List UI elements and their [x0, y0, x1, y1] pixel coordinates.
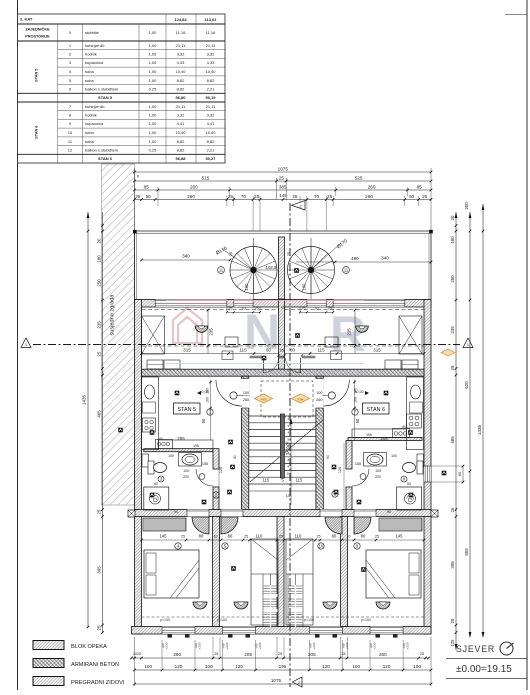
neighbour building hatch susjedna zgrada — [102, 164, 135, 505]
svg-text:STAN 5: STAN 5 — [178, 407, 196, 413]
svg-text:25: 25 — [228, 251, 233, 256]
kitchen counter left — [142, 377, 159, 450]
dimension row small top — [135, 199, 432, 201]
watermark diamond far right — [441, 349, 455, 356]
right dimension column 3 1435 — [482, 204, 484, 637]
svg-text:1075: 1075 — [278, 167, 289, 172]
svg-text:260: 260 — [365, 194, 373, 199]
sideboard left living — [147, 360, 163, 369]
extension line top right — [430, 168, 432, 231]
svg-text:180: 180 — [450, 236, 455, 244]
svg-text:25: 25 — [181, 535, 185, 539]
svg-text:STAN 6: STAN 6 — [367, 407, 385, 413]
svg-text:115: 115 — [263, 478, 270, 483]
stair shaft wall left — [241, 376, 248, 516]
interior door dim right — [300, 311, 333, 313]
top exterior wall — [135, 300, 432, 308]
svg-text:120: 120 — [219, 467, 223, 473]
bathroom window right wall — [424, 466, 431, 482]
room schedule table — [18, 14, 226, 163]
section marker B bottom — [293, 677, 303, 687]
svg-text:25: 25 — [279, 176, 285, 181]
label STAN 6 — [363, 403, 390, 414]
bottom wall edge extension lines — [212, 637, 214, 659]
washbasin left — [179, 453, 202, 467]
watermark logo house — [173, 308, 202, 343]
svg-text:1025: 1025 — [133, 652, 141, 656]
svg-text:STAN 5: STAN 5 — [98, 95, 113, 100]
svg-text:110: 110 — [295, 534, 302, 539]
entry door right apartment — [323, 380, 349, 406]
svg-text:100: 100 — [352, 664, 360, 669]
svg-text:25: 25 — [328, 307, 332, 311]
svg-text:0,25: 0,25 — [149, 147, 158, 152]
balcony door top right — [307, 300, 326, 308]
vestibule door left leaf — [263, 358, 265, 373]
door opening bedroom3 — [320, 510, 342, 517]
svg-text:1,00: 1,00 — [149, 60, 158, 65]
svg-text:+0,00: +0,00 — [354, 390, 364, 394]
stair treads — [249, 415, 316, 417]
svg-text:2,21: 2,21 — [207, 86, 216, 91]
svg-text:8,82: 8,82 — [207, 78, 216, 83]
legend blok opeka — [33, 641, 64, 650]
svg-text:90: 90 — [233, 455, 237, 459]
svg-text:100: 100 — [205, 664, 213, 669]
window bedroom2 bottom — [223, 627, 256, 635]
spiral staircase right — [288, 247, 335, 294]
svg-text:70: 70 — [241, 307, 245, 311]
window top-left living room — [155, 300, 227, 308]
svg-text:235: 235 — [96, 321, 101, 329]
separator line — [446, 658, 527, 660]
section marker A right — [463, 338, 473, 348]
sideboard right living — [402, 360, 418, 369]
svg-text:+230: +230 — [312, 642, 316, 649]
svg-text:100: 100 — [316, 391, 322, 395]
svg-text:485: 485 — [450, 436, 455, 444]
svg-text:±0.00=19.15: ±0.00=19.15 — [456, 664, 512, 675]
svg-text:340: 340 — [381, 256, 389, 261]
electrical symbols — [118, 428, 123, 433]
svg-text:1075: 1075 — [271, 678, 282, 683]
svg-text:145: 145 — [396, 534, 404, 539]
svg-text:620: 620 — [464, 381, 469, 389]
svg-text:60: 60 — [159, 437, 163, 441]
door fan bedroom2 — [221, 517, 238, 534]
dimension row 85-260-385-260-85 — [135, 189, 432, 191]
svg-text:205: 205 — [244, 652, 252, 657]
svg-text:100: 100 — [206, 397, 210, 403]
svg-text:2. KAT: 2. KAT — [20, 17, 33, 22]
section marker A left — [21, 338, 31, 348]
svg-text:soba: soba — [85, 78, 94, 83]
svg-text:85: 85 — [417, 185, 423, 190]
bath window dim 60 — [462, 466, 464, 482]
svg-text:8,82: 8,82 — [177, 147, 186, 152]
svg-text:100: 100 — [302, 283, 307, 291]
balcony railing top — [135, 230, 432, 232]
bath dim ticks — [218, 455, 220, 509]
svg-text:kuhinja+db: kuhinja+db — [85, 43, 105, 48]
svg-text:9x16,67: 9x16,67 — [286, 441, 290, 455]
sheet frame right border — [526, 0, 528, 690]
svg-text:3,32: 3,32 — [207, 52, 216, 57]
svg-text:115: 115 — [317, 348, 325, 353]
hodnik dim right — [354, 380, 356, 440]
svg-text:11,16: 11,16 — [176, 30, 186, 35]
svg-text:soba: soba — [85, 130, 94, 135]
svg-text:80: 80 — [332, 534, 337, 539]
svg-text:STAN 6: STAN 6 — [35, 126, 39, 139]
wall junction symbol right — [431, 510, 438, 517]
bedroom divider wall 1 — [213, 517, 220, 627]
bath door left arc — [196, 469, 213, 486]
svg-text:BLOK OPEKA: BLOK OPEKA — [71, 644, 107, 650]
svg-text:260: 260 — [379, 652, 387, 657]
svg-text:11,16: 11,16 — [206, 30, 216, 35]
svg-text:80: 80 — [199, 534, 204, 539]
svg-text:195: 195 — [193, 444, 199, 448]
kitchen counter leg right — [352, 429, 407, 438]
left dimension column inner — [102, 212, 104, 633]
svg-text:25: 25 — [214, 652, 218, 656]
svg-text:113,61: 113,61 — [204, 17, 217, 22]
svg-text:56,88: 56,88 — [175, 156, 186, 161]
svg-text:120: 120 — [383, 664, 391, 669]
svg-text:25: 25 — [422, 194, 428, 199]
svg-text:155: 155 — [202, 462, 208, 466]
dimension row 1075 top — [135, 171, 432, 173]
svg-text:90: 90 — [326, 455, 330, 459]
svg-text:10,40: 10,40 — [175, 130, 186, 135]
svg-text:p=100: p=100 — [160, 618, 170, 622]
stair dashed outline upper — [261, 381, 313, 417]
vertical dim 235 right — [354, 310, 356, 354]
svg-text:p=100: p=100 — [361, 618, 371, 622]
svg-text:0,25: 0,25 — [149, 86, 158, 91]
svg-text:200: 200 — [375, 475, 381, 479]
sconce right living — [356, 326, 369, 332]
hodnik circled numbers — [207, 409, 213, 415]
door opening bedroom2 — [221, 510, 243, 517]
stair center stringer — [280, 414, 284, 478]
door fan bedroom3 — [325, 517, 342, 534]
section marker B top — [292, 201, 306, 211]
stove right — [407, 414, 422, 428]
svg-text:235: 235 — [347, 328, 352, 336]
svg-text:12: 12 — [68, 147, 73, 152]
svg-text:1435: 1435 — [477, 424, 482, 435]
svg-text:25: 25 — [96, 351, 101, 356]
svg-text:kupaonica: kupaonica — [85, 121, 104, 126]
svg-text:60: 60 — [290, 348, 295, 353]
wardrobe right bedroom — [379, 518, 422, 531]
label STAN 5 — [174, 403, 201, 414]
svg-text:stubište: stubište — [85, 30, 100, 35]
svg-text:kupaonica: kupaonica — [85, 60, 104, 65]
svg-text:◂ss: ◂ss — [260, 397, 266, 402]
closet left with X — [142, 316, 165, 354]
svg-text:124,84: 124,84 — [174, 17, 187, 22]
svg-text:250: 250 — [450, 275, 455, 283]
svg-text:PREGRADNI ZIDOVI: PREGRADNI ZIDOVI — [71, 680, 125, 686]
svg-text:395: 395 — [96, 566, 101, 574]
svg-text:21,11: 21,11 — [206, 43, 216, 48]
svg-text:25: 25 — [301, 307, 305, 311]
door gap right shaft wall — [315, 379, 323, 409]
spiral staircase left — [230, 247, 277, 294]
svg-text:25: 25 — [135, 194, 141, 199]
svg-text:ZAJEDNIČKE: ZAJEDNIČKE — [25, 27, 50, 32]
door gap left shaft wall — [241, 379, 249, 409]
spiral stair label right — [311, 243, 341, 270]
svg-text:1,00: 1,00 — [149, 139, 158, 144]
svg-text:120: 120 — [322, 664, 330, 669]
svg-text:1,00: 1,00 — [149, 113, 158, 118]
svg-text:315: 315 — [183, 348, 191, 353]
interior door dim left — [227, 311, 260, 313]
svg-text:120: 120 — [175, 664, 183, 669]
svg-text:balkon s stubištem: balkon s stubištem — [85, 147, 119, 152]
balcony divider wall — [279, 237, 285, 299]
svg-text:1,00: 1,00 — [149, 121, 158, 126]
svg-text:4,41: 4,41 — [207, 121, 216, 126]
washing machine right — [417, 454, 424, 467]
svg-text:SJEVER: SJEVER — [456, 644, 495, 654]
svg-text:235: 235 — [450, 326, 455, 334]
svg-text:soba: soba — [85, 69, 94, 74]
svg-text:60: 60 — [154, 482, 158, 486]
svg-text:100: 100 — [183, 469, 189, 473]
svg-text:25: 25 — [278, 652, 282, 656]
svg-text:20: 20 — [450, 215, 455, 220]
bottom exterior wall — [132, 627, 432, 635]
svg-text:ss▸: ss▸ — [297, 397, 303, 402]
svg-text:PROSTORIJE: PROSTORIJE — [25, 35, 50, 39]
svg-text:200: 200 — [183, 475, 189, 479]
sconce left living — [195, 326, 208, 332]
window bedroom1 bottom — [162, 627, 195, 635]
hodnik dim left — [210, 380, 212, 440]
svg-text:25: 25 — [341, 652, 345, 656]
svg-text:465: 465 — [96, 410, 101, 418]
vestibule south wall — [250, 355, 262, 357]
svg-text:25: 25 — [375, 535, 379, 539]
dashed line above bottom wall — [142, 616, 279, 618]
svg-text:60: 60 — [402, 425, 406, 429]
svg-text:1,00: 1,00 — [149, 130, 158, 135]
wall A below living rooms — [142, 369, 425, 376]
svg-text:205: 205 — [308, 652, 316, 657]
svg-text:21,11: 21,11 — [176, 104, 186, 109]
center wall between living rooms — [279, 300, 285, 370]
svg-text:+230: +230 — [165, 642, 169, 649]
legend pregradni zidovi — [33, 677, 64, 686]
living room dashed beam lines — [142, 309, 279, 311]
svg-text:90: 90 — [355, 418, 360, 423]
washbasin right — [364, 453, 387, 467]
svg-text:100: 100 — [375, 469, 381, 473]
svg-text:50,19: 50,19 — [205, 95, 216, 100]
svg-text:180: 180 — [96, 255, 101, 263]
svg-text:490: 490 — [351, 256, 359, 261]
legend armirani beton — [33, 659, 64, 668]
table left living — [225, 337, 238, 347]
bedroom divider wall 2 — [277, 517, 284, 627]
extension line top left — [134, 168, 136, 231]
small cabinet left living — [222, 351, 233, 360]
watermark red lines — [166, 300, 364, 302]
svg-text:100: 100 — [243, 391, 249, 395]
svg-text:195: 195 — [279, 664, 287, 669]
svg-text:8,82: 8,82 — [177, 139, 186, 144]
bath wall vertical right — [346, 441, 352, 470]
svg-text:11: 11 — [219, 268, 224, 273]
svg-text:85: 85 — [144, 185, 150, 190]
kitchen counter leg left — [159, 440, 214, 449]
svg-text:60: 60 — [457, 471, 462, 476]
svg-text:4,41: 4,41 — [177, 121, 186, 126]
vestibule door right leaf — [300, 358, 302, 373]
svg-text:20: 20 — [96, 238, 101, 243]
svg-text:STAN 6: STAN 6 — [98, 156, 113, 161]
svg-text:soba: soba — [85, 139, 94, 144]
svg-text:115: 115 — [296, 478, 303, 483]
svg-text:8,82: 8,82 — [177, 86, 186, 91]
stair break line diagonal — [250, 420, 323, 482]
svg-text:80: 80 — [361, 534, 366, 539]
svg-text:25: 25 — [450, 507, 455, 512]
svg-text:21,11: 21,11 — [206, 104, 216, 109]
svg-text:1,00: 1,00 — [149, 43, 158, 48]
svg-text:200: 200 — [464, 202, 469, 210]
svg-text:120: 120 — [338, 467, 342, 473]
svg-text:25: 25 — [254, 307, 258, 311]
bath door right arc — [352, 469, 369, 486]
svg-text:555: 555 — [464, 548, 469, 556]
svg-text:260: 260 — [368, 185, 376, 190]
svg-text:8,82: 8,82 — [177, 78, 186, 83]
svg-text:+230: +230 — [258, 642, 262, 649]
svg-text:70: 70 — [314, 194, 320, 199]
svg-text:90: 90 — [387, 510, 391, 514]
svg-text:125: 125 — [450, 639, 455, 647]
north symbol — [500, 642, 513, 655]
right dimension column 2 — [469, 212, 471, 637]
svg-text:8,82: 8,82 — [207, 139, 216, 144]
door fan bedroom1 — [192, 517, 209, 534]
table right living — [325, 337, 338, 347]
stair landing line — [250, 490, 316, 492]
svg-text:10: 10 — [319, 544, 324, 549]
svg-text:2,21: 2,21 — [207, 147, 216, 152]
small cabinet right living — [331, 351, 342, 360]
watermark diamond right — [292, 394, 310, 403]
svg-text:balkon s stubištem: balkon s stubištem — [85, 86, 119, 91]
svg-text:50: 50 — [146, 194, 152, 199]
svg-text:395: 395 — [450, 561, 455, 569]
svg-text:3,32: 3,32 — [177, 113, 186, 118]
entry door left apartment — [216, 380, 242, 406]
svg-text:250: 250 — [96, 279, 101, 287]
bath wall vertical left — [213, 449, 219, 469]
left exterior wall — [135, 300, 142, 635]
kitchen counter right — [407, 377, 424, 450]
svg-text:ARMIRANI BETON: ARMIRANI BETON — [71, 662, 119, 668]
svg-text:102,5: 102,5 — [266, 265, 278, 270]
svg-text:1,00: 1,00 — [149, 104, 158, 109]
svg-text:525: 525 — [355, 176, 363, 181]
svg-text:195: 195 — [366, 433, 372, 437]
stair shaft wall right — [316, 376, 323, 516]
svg-text:25: 25 — [280, 349, 284, 353]
svg-text:110: 110 — [256, 534, 263, 539]
svg-text:STAN 5: STAN 5 — [35, 69, 39, 82]
separator line 2 — [446, 678, 527, 680]
shower left — [144, 487, 169, 510]
svg-text:100: 100 — [391, 454, 397, 458]
svg-text:50,27: 50,27 — [205, 156, 216, 161]
section line A-A horizontal — [33, 344, 460, 346]
frame top stub right — [505, 14, 527, 16]
svg-text:70: 70 — [241, 194, 247, 199]
svg-text:115: 115 — [239, 348, 247, 353]
svg-text:25: 25 — [327, 194, 333, 199]
svg-text:+230: +230 — [345, 642, 349, 649]
svg-text:235: 235 — [209, 328, 214, 336]
bed left bedroom — [144, 550, 199, 598]
spiral stair label left — [222, 249, 254, 270]
svg-text:315: 315 — [373, 348, 381, 353]
svg-text:90: 90 — [174, 510, 178, 514]
closet right with X — [399, 316, 422, 354]
svg-text:GRADNJA · NEKRETNINE · PROJEKT: GRADNJA · NEKRETNINE · PROJEKTIRANJE — [208, 371, 368, 377]
svg-text:25: 25 — [228, 307, 232, 311]
shower right — [397, 487, 422, 510]
bedroom divider wall 3 — [341, 517, 348, 627]
svg-text:25: 25 — [279, 535, 283, 539]
svg-text:205: 205 — [380, 436, 388, 441]
bed middle-left room — [251, 539, 278, 625]
living room dims right — [285, 353, 425, 355]
balcony dim 340 left — [142, 259, 231, 261]
bottom extension lines — [134, 637, 136, 686]
door fan bedroom4 — [354, 517, 371, 534]
svg-text:3,32: 3,32 — [177, 52, 186, 57]
svg-text:10: 10 — [68, 130, 73, 135]
svg-text:+230: +230 — [373, 642, 377, 649]
svg-text:+230: +230 — [406, 642, 410, 649]
svg-text:1,00: 1,00 — [149, 30, 158, 35]
svg-text:p=100: p=100 — [217, 618, 227, 622]
svg-text:25: 25 — [254, 194, 260, 199]
svg-text:11: 11 — [344, 268, 349, 273]
svg-text:340: 340 — [182, 254, 190, 259]
svg-text:4,33: 4,33 — [207, 60, 216, 65]
bottom dimension row 3 — [135, 683, 432, 685]
balcony dim 490-340 right — [296, 261, 431, 263]
svg-text:1435: 1435 — [82, 394, 87, 405]
svg-text:+230: +230 — [225, 642, 229, 649]
washing machine left — [142, 454, 149, 467]
svg-text:260: 260 — [187, 194, 195, 199]
svg-text:260: 260 — [316, 398, 322, 402]
svg-text:10: 10 — [214, 535, 218, 539]
svg-text:25: 25 — [450, 365, 455, 370]
svg-text:10,40: 10,40 — [175, 69, 186, 74]
svg-text:515: 515 — [202, 176, 210, 181]
